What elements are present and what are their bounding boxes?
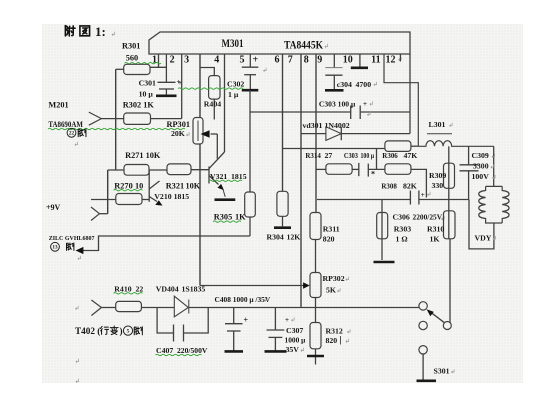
svg-text:+: + (285, 316, 289, 324)
svg-text:ZILC GVHL6807: ZILC GVHL6807 (49, 236, 95, 242)
svg-text:C307: C307 (286, 326, 303, 335)
svg-text:R301: R301 (122, 42, 140, 51)
svg-text:3: 3 (184, 55, 189, 66)
svg-text:+: + (244, 316, 249, 325)
svg-text:R304: R304 (267, 233, 284, 242)
svg-text:820: 820 (326, 336, 338, 345)
svg-text:4: 4 (214, 55, 219, 66)
svg-text:1K: 1K (430, 235, 440, 244)
svg-text:C306: C306 (393, 213, 410, 222)
svg-text:M201: M201 (48, 101, 68, 110)
svg-text:11: 11 (371, 55, 380, 66)
svg-text:10: 10 (343, 55, 353, 66)
svg-text:C303: C303 (344, 151, 358, 160)
svg-text:2200/25V: 2200/25V (413, 213, 443, 222)
svg-text:C302: C302 (227, 80, 244, 89)
svg-text:C301: C301 (139, 79, 156, 88)
svg-text:10 μ: 10 μ (139, 90, 154, 99)
svg-text:+: + (178, 79, 182, 87)
svg-text:5K: 5K (326, 285, 336, 294)
svg-text:2: 2 (170, 55, 175, 66)
svg-text:RP301: RP301 (167, 120, 191, 129)
svg-text:7: 7 (288, 55, 293, 66)
svg-text:27: 27 (325, 151, 333, 160)
svg-text:6: 6 (275, 55, 280, 66)
svg-text:VD404: VD404 (156, 284, 179, 293)
svg-text:R404: R404 (204, 100, 221, 109)
svg-text:1K: 1K (235, 213, 246, 222)
svg-text:4700: 4700 (356, 80, 372, 89)
svg-text:C408 1000 μ /35V: C408 1000 μ /35V (215, 295, 271, 304)
svg-text:*: * (371, 170, 375, 179)
svg-text:c304: c304 (337, 80, 352, 89)
svg-text:R270: R270 (114, 181, 132, 190)
svg-text:220/500V: 220/500V (177, 346, 208, 355)
svg-text:100V: 100V (472, 172, 490, 181)
svg-text:13: 13 (52, 245, 58, 251)
svg-text:8: 8 (304, 55, 309, 66)
svg-text:R305: R305 (214, 213, 232, 222)
svg-text:TA8690AM: TA8690AM (48, 120, 83, 129)
svg-text:820: 820 (323, 235, 335, 244)
svg-text:vd301: vd301 (303, 121, 323, 130)
svg-text:R308: R308 (381, 182, 397, 191)
svg-text:V210 1815: V210 1815 (154, 192, 189, 201)
svg-text:T402 (: T402 ( (75, 326, 100, 336)
svg-text:12: 12 (386, 55, 396, 66)
svg-text:R302 1K: R302 1K (123, 101, 155, 110)
svg-text:+: + (421, 191, 425, 199)
svg-text:R310: R310 (427, 225, 444, 234)
svg-text:1815: 1815 (231, 172, 247, 181)
svg-text:5: 5 (127, 329, 130, 335)
svg-text:+9V: +9V (46, 203, 61, 212)
svg-text:C309: C309 (472, 151, 489, 160)
svg-text:22: 22 (136, 284, 144, 293)
svg-text:V321: V321 (210, 172, 227, 181)
svg-text:100 μ: 100 μ (361, 151, 375, 160)
svg-text:R306: R306 (382, 151, 398, 160)
svg-text:1 Ω: 1 Ω (396, 235, 408, 244)
svg-text:R271 10K: R271 10K (125, 151, 161, 160)
svg-text:R321: R321 (166, 182, 184, 191)
svg-text:): ) (120, 326, 123, 336)
svg-text:20K: 20K (171, 129, 185, 138)
svg-text:S301: S301 (434, 366, 450, 375)
svg-text:RP302: RP302 (323, 274, 345, 283)
svg-text:10K: 10K (186, 182, 201, 191)
svg-text:22: 22 (69, 131, 75, 137)
svg-text:R410: R410 (114, 284, 131, 293)
svg-text:1 μ: 1 μ (228, 90, 239, 99)
svg-text:35V: 35V (286, 345, 300, 354)
svg-text:10: 10 (135, 181, 143, 190)
svg-text:560: 560 (126, 54, 138, 63)
svg-text:9: 9 (317, 55, 322, 66)
svg-text:TA8445K: TA8445K (284, 40, 323, 52)
svg-text:5: 5 (240, 55, 245, 66)
svg-text:1S1835: 1S1835 (182, 284, 206, 293)
svg-text:330: 330 (432, 181, 444, 190)
svg-text:L301: L301 (429, 120, 446, 129)
svg-text:3300: 3300 (473, 162, 489, 171)
svg-text:R314: R314 (305, 151, 321, 160)
svg-text:82K: 82K (403, 182, 417, 191)
svg-text:R309: R309 (429, 171, 446, 180)
svg-text:+: + (252, 55, 258, 66)
svg-text:12K: 12K (287, 233, 301, 242)
svg-text:+: + (363, 100, 367, 108)
svg-text:47K: 47K (404, 151, 418, 160)
svg-text:R312: R312 (326, 326, 343, 335)
svg-text:R311: R311 (323, 225, 340, 234)
svg-text:1000 μ: 1000 μ (285, 336, 307, 345)
svg-text:M301: M301 (222, 38, 244, 50)
svg-text:1:: 1: (95, 24, 106, 39)
svg-text:R303: R303 (394, 225, 411, 234)
svg-text:VDY: VDY (475, 233, 492, 242)
svg-text:C407: C407 (156, 346, 173, 355)
